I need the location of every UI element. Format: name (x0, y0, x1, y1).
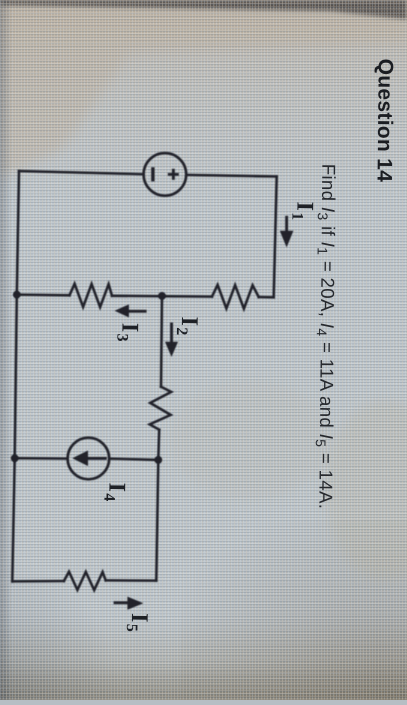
wire: right side of upper loop (274, 177, 277, 298)
resistor R-right on middle rail (212, 285, 259, 309)
left edge darkening of photo (0, 0, 12, 700)
wire: bottom rail right segment (106, 579, 157, 582)
resistor R-branch (vertical) (150, 387, 172, 430)
voltage source minus sign (rotated) (151, 167, 154, 181)
warm moire patch right side (180, 520, 407, 700)
wire: current source rail right (109, 459, 158, 460)
wire: centre branch lower (157, 430, 160, 460)
current arrow I2 (down) (170, 323, 173, 343)
junction node dot (left / current source rail) (11, 454, 19, 462)
wire: middle rail centre segment (112, 295, 212, 298)
voltage source plus sign (rotated) (168, 173, 179, 176)
resistor R-bottom (64, 572, 106, 590)
resistor R-left on middle rail (70, 284, 113, 307)
bottom-left corner shadow (0, 560, 120, 700)
wire: top rail (voltage source to top-right corner) (186, 175, 277, 177)
wire: bottom rail left segment (12, 580, 64, 583)
wire: current source rail left (15, 457, 68, 460)
dark bezel strip at very top (0, 0, 407, 19)
current source I4 circle (68, 438, 110, 480)
warm tint along bottom (0, 0, 1, 1)
current arrow I5 (right) (114, 601, 129, 604)
warm top region of photo (0, 0, 407, 200)
wire: centre branch upper (161, 296, 162, 387)
junction node dot (branch / current source rail) (154, 456, 162, 464)
junction node dot (middle rail / branch) (158, 292, 166, 300)
wire: top rail (left part, into voltage source) (19, 171, 144, 174)
junction node dot (left-middle) (13, 291, 21, 299)
bottom darkening of photo (0, 615, 407, 700)
svg-text:Question 14: Question 14 (373, 59, 397, 183)
wire: left rail (full height) (12, 171, 19, 581)
current arrow I3 (left) (129, 310, 147, 313)
voltage source circle (144, 153, 187, 196)
wire: middle rail left segment (17, 293, 70, 296)
current arrow I1 (down) (285, 216, 288, 232)
current source I4 arrow (points left in photo) (72, 451, 88, 467)
wire: lower right vertical (156, 460, 158, 581)
warm top band of photo (0, 4, 407, 178)
wire: middle rail right segment (259, 296, 274, 299)
